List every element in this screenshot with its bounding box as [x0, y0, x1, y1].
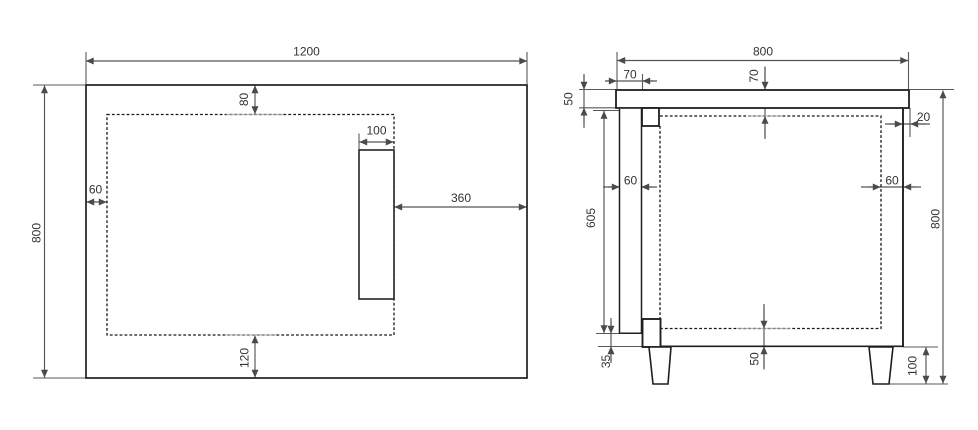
- svg-text:800: 800: [929, 209, 943, 229]
- svg-text:800: 800: [30, 223, 44, 243]
- svg-text:20: 20: [917, 110, 931, 124]
- svg-text:605: 605: [584, 208, 598, 228]
- svg-text:100: 100: [366, 124, 386, 138]
- svg-text:60: 60: [89, 183, 103, 197]
- svg-text:800: 800: [753, 45, 773, 59]
- svg-text:60: 60: [885, 174, 899, 188]
- svg-text:1200: 1200: [293, 45, 320, 59]
- svg-text:60: 60: [624, 174, 638, 188]
- svg-text:35: 35: [599, 355, 613, 369]
- svg-text:50: 50: [562, 92, 576, 106]
- svg-text:80: 80: [237, 93, 251, 107]
- svg-text:360: 360: [451, 191, 471, 205]
- svg-text:70: 70: [747, 69, 761, 83]
- svg-text:120: 120: [238, 348, 252, 368]
- svg-text:50: 50: [748, 352, 762, 366]
- svg-text:100: 100: [906, 356, 920, 376]
- svg-text:70: 70: [623, 68, 637, 82]
